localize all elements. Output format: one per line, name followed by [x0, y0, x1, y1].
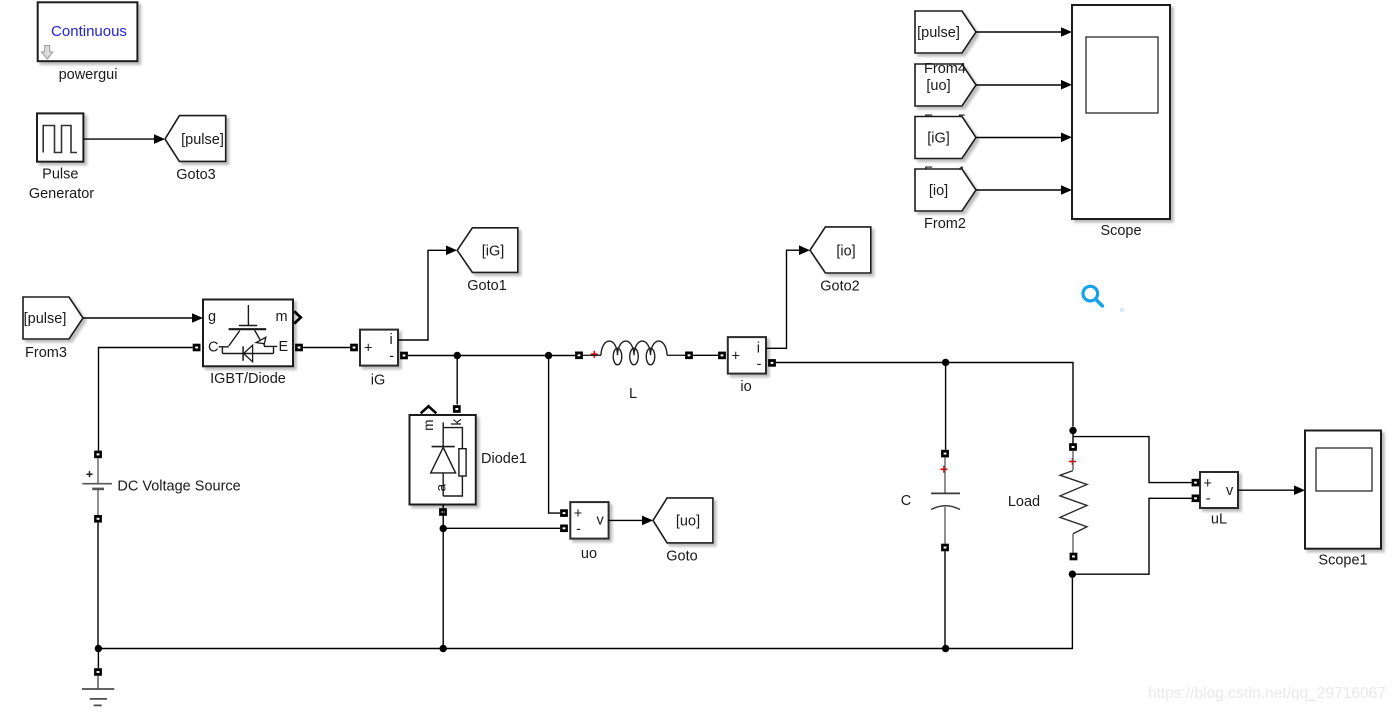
port plus of iG — [350, 344, 358, 352]
svg-text:k: k — [449, 419, 464, 426]
svg-text:m: m — [276, 309, 288, 325]
svg-text:https://blog.csdn.net/qq_29716: https://blog.csdn.net/qq_29716067 — [1148, 685, 1386, 702]
port C of IGBT — [193, 344, 201, 352]
wire L to io plus — [693, 354, 718, 356]
svg-text:Scope1: Scope1 — [1318, 553, 1367, 569]
svg-text:-: - — [389, 348, 394, 364]
port right of inductor L — [685, 352, 693, 360]
svg-text:[uo]: [uo] — [676, 514, 700, 530]
node junction rail at C — [942, 645, 949, 652]
svg-text:Goto: Goto — [666, 549, 697, 565]
port minus of DC Voltage Source — [94, 515, 102, 523]
wire Load bottom to uL minus — [1072, 498, 1191, 574]
from tag From4 [pulse] — [915, 11, 976, 53]
wire iG i output to Goto1 — [398, 250, 447, 340]
svg-text:[io]: [io] — [929, 183, 948, 199]
dc voltage source battery — [82, 458, 112, 515]
wire Diode1 bottom to ground rail — [442, 505, 444, 649]
svg-text:+: + — [364, 341, 372, 357]
wire bottom rail — [98, 578, 1072, 649]
wire uo v output to Goto — [609, 519, 643, 521]
svg-text:Diode1: Diode1 — [481, 451, 527, 467]
svg-text:-: - — [757, 357, 762, 373]
diode block Diode1 — [410, 406, 476, 504]
svg-text:C: C — [901, 493, 911, 509]
voltage measurement block uL — [1200, 472, 1238, 508]
port left of inductor L — [575, 352, 583, 360]
capacitor C — [931, 457, 960, 543]
svg-text:+: + — [1204, 476, 1212, 492]
scope block Scope — [1072, 5, 1170, 219]
polarity plus of C — [941, 466, 948, 473]
wire From3 to IGBT gate g — [83, 317, 193, 319]
wire IGBT E to iG plus — [303, 347, 350, 349]
wire junction to uo minus — [443, 527, 560, 529]
svg-text:a: a — [434, 484, 449, 492]
polarity plus of Load — [1069, 458, 1076, 465]
svg-text:m: m — [421, 420, 436, 431]
cursor square — [1120, 308, 1125, 312]
svg-text:L: L — [629, 386, 637, 402]
from tag From5 [uo] — [915, 64, 976, 106]
svg-text:-: - — [576, 521, 581, 537]
goto tag Goto3 — [165, 116, 226, 162]
svg-text:iG: iG — [371, 372, 386, 388]
node junction at ground — [95, 645, 102, 652]
polarity plus of L — [591, 351, 598, 358]
svg-text:v: v — [1226, 483, 1234, 499]
node junction at Diode branch — [454, 352, 461, 359]
wire From4 to Scope in 1 — [976, 31, 1062, 33]
from tag From3 [pulse] — [23, 297, 83, 339]
wire junction to uo plus — [549, 356, 560, 514]
svg-text:v: v — [597, 512, 605, 528]
resistor Load — [1060, 451, 1087, 553]
port of Ground — [94, 668, 102, 676]
wire junction to ground port — [97, 649, 99, 669]
svg-text:-: - — [1206, 491, 1211, 507]
wire io i output to Goto2 — [766, 250, 800, 348]
port top of Diode1 — [453, 405, 461, 413]
svg-text:[pulse]: [pulse] — [181, 132, 224, 148]
svg-text:From3: From3 — [25, 345, 67, 361]
transistor block IGBT/Diode — [203, 300, 301, 367]
wire From2 to Scope in 4 — [976, 189, 1062, 191]
port top of capacitor C — [941, 450, 949, 458]
svg-text:uo: uo — [581, 546, 597, 562]
svg-text:powergui: powergui — [59, 67, 118, 83]
svg-text:[iG]: [iG] — [927, 131, 950, 147]
wire DC Voltage Source to bottom rail — [97, 523, 99, 649]
svg-text:DC Voltage Source: DC Voltage Source — [117, 479, 240, 495]
Pulse Generator block — [37, 113, 83, 161]
wire junction stub to Load port — [1072, 431, 1074, 444]
wire junction down to Diode1 top — [456, 356, 458, 405]
port top of Load — [1069, 443, 1077, 451]
wire From1 to Scope in 3 — [976, 137, 1062, 139]
port plus of DC Voltage Source — [94, 451, 102, 459]
svg-text:[uo]: [uo] — [926, 78, 950, 94]
wire IGBT C to DC Voltage Source — [99, 348, 193, 451]
port minus of iG — [400, 352, 408, 360]
node junction Load top — [1069, 427, 1076, 434]
port plus of uL — [1192, 479, 1200, 487]
svg-text:[pulse]: [pulse] — [917, 25, 960, 41]
svg-text:[pulse]: [pulse] — [24, 311, 67, 327]
svg-text:Goto1: Goto1 — [467, 278, 507, 294]
port bottom of Load — [1070, 553, 1078, 561]
svg-text:E: E — [279, 339, 289, 355]
wire Pulse Generator to Goto3 — [83, 138, 154, 140]
svg-text:Goto2: Goto2 — [820, 279, 860, 295]
svg-text:io: io — [740, 379, 751, 395]
node junction below Diode1 — [440, 525, 447, 532]
wire Load top junction to uL plus — [1073, 437, 1192, 483]
svg-text:Generator: Generator — [29, 186, 94, 202]
svg-text:+: + — [574, 506, 582, 522]
wire iG minus to inductor L — [408, 355, 575, 357]
port minus of uL — [1192, 495, 1200, 503]
port minus of uo — [560, 525, 568, 533]
magnifier icon — [1083, 286, 1102, 306]
port plus of io — [718, 352, 726, 360]
node junction rail at Diode1 — [440, 645, 447, 652]
port E of IGBT — [295, 344, 303, 352]
port minus of io — [768, 359, 776, 367]
ground symbol — [82, 676, 114, 706]
svg-text:From4: From4 — [924, 61, 966, 77]
powergui block — [38, 2, 138, 61]
port bottom of capacitor C — [941, 544, 949, 552]
inductor L — [583, 341, 686, 365]
svg-text:uL: uL — [1211, 512, 1227, 528]
svg-text:+: + — [732, 348, 740, 364]
wire io minus to Load branch — [776, 363, 1073, 427]
svg-text:i: i — [757, 340, 760, 356]
wire From5 to Scope in 2 — [976, 84, 1062, 86]
svg-text:i: i — [390, 332, 393, 348]
svg-text:[iG]: [iG] — [482, 244, 505, 260]
port plus of uo — [560, 509, 568, 517]
svg-text:Continuous: Continuous — [51, 23, 127, 40]
voltage measurement block uo — [570, 502, 608, 538]
node junction above C — [942, 359, 949, 366]
wire junction down to C — [945, 362, 947, 449]
svg-text:C: C — [208, 340, 218, 356]
svg-text:[io]: [io] — [836, 243, 855, 259]
from tag From1 [iG] — [915, 117, 976, 159]
from tag From2 [io] — [915, 169, 976, 211]
svg-text:From2: From2 — [924, 216, 966, 232]
goto tag Goto [uo] — [653, 498, 713, 543]
wire uL v output to Scope1 — [1238, 489, 1295, 491]
svg-text:Load: Load — [1008, 494, 1040, 510]
current measurement block iG — [360, 330, 398, 366]
svg-text:Goto3: Goto3 — [176, 167, 216, 183]
svg-text:g: g — [208, 309, 216, 325]
svg-text:Scope: Scope — [1100, 223, 1141, 239]
port bottom of Diode1 — [439, 508, 447, 516]
node junction at uo branch — [545, 352, 552, 359]
svg-text:IGBT/Diode: IGBT/Diode — [210, 371, 286, 387]
scope block Scope1 — [1305, 431, 1381, 549]
goto tag Goto2 [io] — [810, 227, 871, 273]
wire C bottom to rail — [944, 551, 946, 648]
current measurement block io — [728, 337, 766, 374]
node junction Load bottom — [1069, 571, 1076, 578]
goto tag Goto1 [iG] — [457, 228, 518, 273]
svg-text:Pulse: Pulse — [42, 167, 78, 183]
